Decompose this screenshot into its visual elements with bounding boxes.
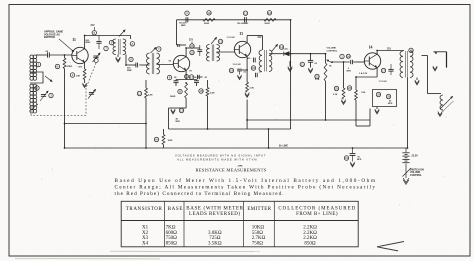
wire collector I4 <box>376 51 378 55</box>
tuning capacitor C1b oscillator section <box>93 55 98 57</box>
ref M <box>154 137 158 141</box>
ref 1 <box>36 62 40 66</box>
svg-text:17: 17 <box>190 75 194 79</box>
svg-text:2.2KΩ: 2.2KΩ <box>303 236 317 241</box>
wire collector I2 <box>185 48 187 57</box>
ground emitter cluster <box>173 107 186 109</box>
capacitor C9 .05 base <box>198 76 203 78</box>
wire R9 to return <box>355 100 357 126</box>
resistor R11 560 <box>264 18 276 21</box>
svg-text:29: 29 <box>387 95 391 99</box>
svg-text:19: 19 <box>230 69 234 73</box>
voice coil arrow <box>440 97 453 110</box>
svg-text:X1: X1 <box>142 225 149 230</box>
svg-text:560Ω: 560Ω <box>170 96 176 98</box>
svg-text:47KΩ: 47KΩ <box>67 65 73 68</box>
svg-text:23: 23 <box>315 75 319 79</box>
voice coil L3 <box>440 95 443 110</box>
svg-text:11: 11 <box>244 11 247 15</box>
capacitor C5 .05 left <box>175 80 177 81</box>
scan speckles <box>159 43 162 46</box>
ref 1A <box>130 42 134 46</box>
svg-text:VOLUME: VOLUME <box>327 48 337 50</box>
wire R6 to bus <box>207 96 209 129</box>
switch mark on battery lead <box>405 164 407 179</box>
annotation arrow to emitter <box>59 39 74 52</box>
ground R5 <box>245 93 249 97</box>
svg-text:725Ω: 725Ω <box>209 236 221 241</box>
capacitor C16 <box>381 68 385 72</box>
table header rule <box>121 220 358 222</box>
svg-text:B: B <box>57 65 59 69</box>
tuning capacitor C1a antenna section <box>41 94 46 96</box>
capacitor C15 2MFD coupling <box>350 60 352 64</box>
svg-text:7KΩ: 7KΩ <box>166 225 176 230</box>
svg-text:CONTROL: CONTROL <box>410 174 422 177</box>
svg-text:MMF: MMF <box>181 25 186 27</box>
svg-text:560Ω: 560Ω <box>265 23 270 25</box>
svg-text:X3: X3 <box>142 236 149 241</box>
svg-text:22.5V: 22.5V <box>412 155 419 158</box>
ref B <box>178 89 182 93</box>
junction dot <box>268 147 270 149</box>
ref 3 <box>49 93 53 97</box>
svg-text:ALL MEASUREMENTS MADE WITH VTV: ALL MEASUREMENTS MADE WITH VTVM <box>177 157 257 161</box>
speaker bar <box>446 52 448 68</box>
gang dashed link <box>86 63 96 88</box>
emitter bus I2 <box>176 79 197 81</box>
wire oscillator top <box>85 35 131 37</box>
ref 34 <box>344 156 348 160</box>
table column rule 2 <box>183 201 185 247</box>
slug arrow L2 <box>119 30 125 37</box>
ref B3 <box>55 64 59 68</box>
capacitor C12 200MMF primary <box>253 58 255 63</box>
IF transformer T1 <box>146 53 149 74</box>
resistor R2 10K <box>83 69 86 80</box>
svg-text:1.7-2.0V: 1.7-2.0V <box>379 81 388 83</box>
svg-text:100-300MMF: 100-300MMF <box>237 23 249 25</box>
svg-text:A: A <box>131 42 133 46</box>
wire T4 secondary to speaker <box>422 55 428 57</box>
svg-text:16: 16 <box>190 44 194 48</box>
ref 4 <box>70 73 74 77</box>
svg-text:Based Upon Use of Meter With 1: Based Upon Use of Meter With 1.5-Volt In… <box>115 177 376 184</box>
ground T3 secondary <box>289 61 291 67</box>
svg-text:3.5KΩ: 3.5KΩ <box>208 242 222 247</box>
margin arrow mark <box>377 242 404 247</box>
svg-text:2.2M: 2.2M <box>210 93 215 95</box>
ground thermistor box <box>376 107 378 110</box>
wire emitter I3 down <box>246 56 248 82</box>
slug arrow T1 <box>151 48 157 54</box>
svg-text:27: 27 <box>382 69 386 73</box>
capacitor C2 .02 <box>47 52 49 57</box>
wire T1 secondary to base I2 <box>157 64 174 66</box>
ref 2 <box>35 86 39 90</box>
ref 14 <box>185 75 189 79</box>
thermistor box <box>373 90 397 107</box>
wire I3 to T3 <box>247 35 262 37</box>
svg-text:10KΩ: 10KΩ <box>252 225 265 230</box>
resistor R4 2.2M <box>145 80 147 88</box>
junction dots <box>64 54 66 56</box>
svg-text:11: 11 <box>185 75 188 79</box>
svg-text:3.0KΩ: 3.0KΩ <box>208 231 222 236</box>
ground battery <box>403 178 409 183</box>
capacitor C10 100-300MMF <box>185 17 187 22</box>
ref 24 <box>251 66 255 70</box>
wire speaker return down <box>427 56 429 94</box>
svg-text:MFD: MFD <box>357 159 362 161</box>
wire to base I1 <box>49 54 72 56</box>
svg-text:2.2K: 2.2K <box>250 87 255 89</box>
svg-text:1.5-1.8V: 1.5-1.8V <box>233 64 242 66</box>
wire collector I3 up <box>246 36 248 43</box>
slug arrow T3 <box>272 45 278 52</box>
slug arrow T2 <box>211 38 217 45</box>
wire osc coil to mixer cap <box>125 55 127 66</box>
wire top decoupling rail <box>177 19 291 21</box>
svg-text:100K: 100K <box>168 140 173 142</box>
wire emitter I1 <box>84 62 86 69</box>
svg-text:Center Range; All Measurements: Center Range; All Measurements Taken Wit… <box>115 184 376 191</box>
speaker terminal wire <box>434 51 447 53</box>
resistor R8 2.2K AVC <box>343 62 345 88</box>
svg-text:EMITTER: EMITTER <box>247 207 271 212</box>
svg-text:MMF: MMF <box>86 42 91 44</box>
wire emitter to 10K <box>356 76 377 78</box>
wire pot bottom to bus <box>325 81 327 120</box>
ref 5 <box>93 27 95 31</box>
wire cap to base I4 <box>353 61 364 63</box>
ref 6 <box>109 40 113 44</box>
ref D <box>94 59 98 63</box>
ref 31 <box>376 92 380 96</box>
capacitor C6 .04 right <box>196 80 198 81</box>
ref h <box>157 47 161 51</box>
capacitor C13 .05 <box>255 73 257 77</box>
capacitor C7 <box>199 45 201 49</box>
wiper arrow <box>327 60 332 63</box>
output transformer T4 <box>400 51 403 78</box>
antenna coupling tap <box>30 72 43 83</box>
svg-text:RESISTANCE MEASUREMENTS: RESISTANCE MEASUREMENTS <box>196 168 267 173</box>
svg-text:CONTROL: CONTROL <box>327 50 338 52</box>
resistor R10 560 <box>203 18 215 21</box>
ground R8 <box>341 100 345 104</box>
ref 19 <box>218 39 222 43</box>
wire R1 to B+ line <box>64 69 66 149</box>
wire T2 secondary to base I3 <box>217 51 235 53</box>
svg-text:BASE: BASE <box>168 207 183 212</box>
ground C14 <box>308 68 312 72</box>
svg-text:CuOx: CuOx <box>283 49 290 51</box>
ref 17 <box>191 42 193 45</box>
common bus 2 <box>246 119 370 121</box>
svg-text:10K: 10K <box>76 76 80 78</box>
wire detector out <box>289 53 325 55</box>
ref 21 <box>189 75 193 79</box>
svg-text:B: B <box>179 90 181 94</box>
svg-text:850Ω: 850Ω <box>304 242 316 247</box>
svg-text:13: 13 <box>180 109 184 113</box>
table column rule 1 <box>164 201 166 247</box>
ref 13 <box>167 75 171 79</box>
svg-text:28: 28 <box>377 93 381 97</box>
ref 7 <box>104 46 108 50</box>
resistor R1 47K base bias <box>64 55 66 58</box>
wire emitter I4 <box>376 68 378 77</box>
svg-text:16: 16 <box>409 48 413 52</box>
table column rule 3 <box>243 201 245 247</box>
svg-text:750Ω: 750Ω <box>166 236 178 241</box>
svg-text:24: 24 <box>347 54 351 58</box>
svg-text:2.2K: 2.2K <box>333 94 338 96</box>
wire cap to T1 <box>139 64 149 66</box>
svg-text:LEADS REVERSED): LEADS REVERSED) <box>189 212 240 217</box>
loopstick antenna coil L1 <box>30 55 34 59</box>
svg-text:COLLECTOR (MEASURED: COLLECTOR (MEASURED <box>278 206 355 211</box>
IF transformer T2 <box>206 45 209 62</box>
svg-text:560Ω: 560Ω <box>204 23 209 25</box>
ref 23 <box>279 45 283 49</box>
wire detector bus drop <box>268 129 270 148</box>
scan streak below table <box>110 250 260 252</box>
ground T4 <box>416 78 418 81</box>
oscillator coil L2 <box>130 36 132 40</box>
battery B1 22.5V <box>405 148 407 152</box>
capacitor C11 100-300MMF <box>244 17 246 22</box>
resistor R3 560 emitter I2 <box>185 83 188 98</box>
svg-text:MFD: MFD <box>176 121 181 123</box>
svg-text:21: 21 <box>301 62 305 66</box>
wire bias branch horizontal <box>65 123 147 125</box>
wire to common bus <box>168 108 170 129</box>
svg-text:I1: I1 <box>73 38 76 42</box>
svg-text:1.8-2.2V: 1.8-2.2V <box>359 73 368 75</box>
svg-text:25: 25 <box>335 87 339 91</box>
svg-text:10: 10 <box>207 11 211 15</box>
svg-text:MFD: MFD <box>388 103 393 105</box>
svg-text:2.2KΩ: 2.2KΩ <box>303 231 317 236</box>
ref 32 <box>386 94 390 98</box>
resistor R6 2.2M <box>207 80 209 88</box>
wire collector I1 up <box>84 36 86 49</box>
svg-text:I3: I3 <box>240 32 243 36</box>
svg-text:BASE (WITH METER: BASE (WITH METER <box>186 206 243 211</box>
svg-text:550Ω: 550Ω <box>252 231 263 236</box>
ref 26 <box>340 54 344 58</box>
B+ line <box>65 147 408 149</box>
svg-text:13: 13 <box>219 40 223 44</box>
svg-text:26: 26 <box>348 86 352 90</box>
svg-text:12: 12 <box>138 92 142 96</box>
capacitor C3 260MMF <box>98 36 100 42</box>
volume potentiometer R7 <box>325 54 327 63</box>
ref 22 <box>199 89 203 93</box>
svg-text:21V: 21V <box>189 40 194 42</box>
ref 27 <box>315 74 319 78</box>
ref 29 <box>334 86 338 90</box>
wire emitter to bus <box>246 100 248 130</box>
bias resistor R12 100K <box>163 129 165 135</box>
svg-text:18: 18 <box>199 89 203 93</box>
svg-text:MFD: MFD <box>347 70 352 72</box>
svg-text:850Ω: 850Ω <box>166 242 178 247</box>
capacitor C8 .05 <box>242 69 247 71</box>
wire wiper to coupling cap <box>332 61 350 63</box>
ground I1 emitter <box>84 80 86 84</box>
svg-text:TRANSISTOR: TRANSISTOR <box>126 207 163 212</box>
resistor R9 10K <box>355 77 357 90</box>
common bus 1 <box>169 128 291 130</box>
wire rail drop joins <box>177 44 187 46</box>
ref 8 <box>129 57 133 61</box>
wire antenna to coupling cap <box>36 54 47 56</box>
svg-text:2.1K: 2.1K <box>315 79 320 81</box>
wire rail left drop to IF stage <box>176 20 178 45</box>
svg-text:21V: 21V <box>258 37 263 39</box>
ground C17 <box>350 162 354 166</box>
table column rule 4 <box>273 201 275 247</box>
electrolytic C17 50MFD on B+ <box>352 148 354 153</box>
svg-text:21V: 21V <box>91 25 96 27</box>
svg-text:1.7-2.0V: 1.7-2.0V <box>227 37 236 39</box>
svg-text:1K: 1K <box>329 66 332 68</box>
svg-text:12: 12 <box>268 11 272 15</box>
svg-text:X4: X4 <box>142 242 149 247</box>
ref 28 <box>346 54 350 58</box>
svg-text:EMITTER: EMITTER <box>44 36 55 39</box>
svg-text:MMF: MMF <box>127 70 132 72</box>
svg-text:– 10V: – 10V <box>77 67 83 69</box>
wire T4 primary bottom to B+ <box>407 78 409 149</box>
ref 30 <box>347 86 351 90</box>
table frame <box>121 201 358 247</box>
svg-text:31: 31 <box>345 156 349 160</box>
svg-text:15: 15 <box>190 51 194 55</box>
ground L2 <box>117 55 119 58</box>
ground C8 <box>237 75 241 78</box>
svg-text:B+ LINE: B+ LINE <box>279 146 288 148</box>
capacitor C14 .02 filter <box>310 54 312 60</box>
tuning capacitor C1b gang section <box>89 92 94 94</box>
ground voice coil <box>442 110 444 112</box>
ground speaker <box>433 66 437 70</box>
svg-text:2.2KΩ: 2.2KΩ <box>303 225 317 230</box>
ref 16 <box>137 91 141 95</box>
svg-text:600Ω: 600Ω <box>166 231 178 236</box>
svg-text:750Ω: 750Ω <box>252 242 263 247</box>
svg-text:X2: X2 <box>142 231 149 236</box>
ref 20 <box>229 68 233 72</box>
ref 18 <box>190 50 194 54</box>
svg-text:2.7KΩ: 2.7KΩ <box>252 236 266 241</box>
resistor R5 2.2K emitter I3 <box>246 82 249 92</box>
svg-text:2.2M: 2.2M <box>148 95 153 97</box>
wire emitter chain down <box>185 98 187 108</box>
svg-text:10K: 10K <box>361 92 365 94</box>
svg-text:I4: I4 <box>369 46 372 50</box>
svg-text:20: 20 <box>252 66 256 70</box>
ref 25 <box>300 62 304 66</box>
wire R4 to B+ line <box>145 98 147 148</box>
ref 15 <box>179 108 183 112</box>
antenna tap arrow <box>45 76 52 82</box>
ref 33 <box>409 48 413 52</box>
IF transformer T3 <box>262 36 264 51</box>
wire AVC vertical to detector <box>290 20 292 129</box>
wire emitter I2 <box>185 70 187 79</box>
capacitor C4 200MMF <box>135 63 137 68</box>
svg-text:FROM B+ LINE): FROM B+ LINE) <box>296 212 338 217</box>
svg-text:21V: 21V <box>387 49 392 51</box>
